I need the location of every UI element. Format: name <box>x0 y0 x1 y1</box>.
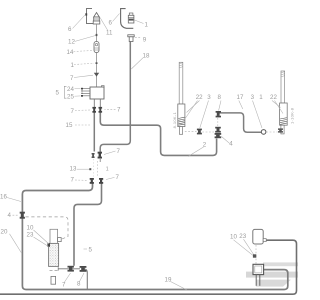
svg-text:7: 7 <box>71 176 75 183</box>
wire dashed link cyl-left to coupler 3 <box>185 130 197 132</box>
breather pipe <box>51 276 56 284</box>
svg-text:7: 7 <box>71 108 75 115</box>
svg-text:15: 15 <box>66 122 73 129</box>
svg-text:3: 3 <box>251 94 255 101</box>
svg-text:14: 14 <box>67 49 74 56</box>
svg-text:10: 10 <box>27 224 34 231</box>
cylinder left body <box>178 104 185 127</box>
coupler 3 left <box>197 129 202 135</box>
svg-text:1: 1 <box>71 62 75 69</box>
tick fitting on chain <box>96 62 98 64</box>
clip on chain <box>96 34 98 36</box>
coupler F5 <box>90 178 94 184</box>
svg-text:2: 2 <box>203 142 207 149</box>
svg-text:22: 22 <box>270 94 277 101</box>
coupler stack fitting 8 <box>216 111 221 117</box>
svg-text:5: 5 <box>89 246 93 253</box>
svg-text:8: 8 <box>218 94 222 101</box>
banjo fitting 9 <box>128 35 134 37</box>
coupler F8 <box>80 266 87 272</box>
leader 8 <box>219 101 221 111</box>
tank outlet line <box>57 267 59 270</box>
svg-text:17: 17 <box>237 94 244 101</box>
svg-text:9: 9 <box>143 37 147 44</box>
coupler F3 <box>92 153 95 158</box>
cylinder right rod <box>281 71 285 103</box>
svg-text:10: 10 <box>230 234 237 241</box>
leader 17 <box>239 101 243 110</box>
svg-text:18: 18 <box>143 53 150 60</box>
filter body <box>49 243 59 266</box>
svg-text:16: 16 <box>0 194 7 201</box>
nozzle 1 (left grease valve) <box>93 13 100 25</box>
wire dashed link ring to cyl-right <box>266 131 277 133</box>
wire chain below nozzle <box>96 24 98 87</box>
svg-text:6: 6 <box>109 19 113 26</box>
svg-text:23: 23 <box>27 232 34 239</box>
fitting small <box>253 254 256 257</box>
coupler stack low <box>215 133 222 138</box>
svg-text:12: 12 <box>68 39 75 46</box>
leader 22 left <box>184 101 198 121</box>
svg-text:5: 5 <box>56 90 60 97</box>
svg-text:11: 11 <box>106 30 113 37</box>
wire dashed suction line <box>26 217 69 239</box>
wire hose B: from fitting F6 down to tank fittings <box>74 184 102 266</box>
valve block legs <box>255 275 257 286</box>
wire dashed link coupler 3 to stack <box>202 131 214 133</box>
cylinder right body <box>280 103 288 125</box>
svg-text:7: 7 <box>117 148 121 155</box>
bracket 6 (right) <box>121 9 134 29</box>
coupler F2 <box>99 107 103 113</box>
coupler F4 <box>98 152 102 159</box>
svg-text:8: 8 <box>77 281 81 288</box>
svg-text:22: 22 <box>196 94 203 101</box>
wire dashed stack link <box>217 118 219 126</box>
coupler F7 <box>68 266 74 272</box>
wire line 18 from banjo 9 down to fitting F4 <box>100 42 130 153</box>
valve block <box>253 264 264 274</box>
wire hose D: pump F2 to right fitting stack <box>100 112 216 155</box>
bracket 6 (left) <box>87 9 96 24</box>
filter hidden bottom dashes <box>50 270 59 272</box>
capsule valve 14 <box>94 42 99 53</box>
leader 3 right <box>253 101 263 129</box>
svg-text:7: 7 <box>70 75 74 82</box>
leader 22 right <box>272 101 281 108</box>
ring fitting 3 right <box>261 130 266 135</box>
coupler 4 left <box>20 212 25 219</box>
svg-text:1: 1 <box>259 94 263 101</box>
wire hose C: canister line down right edge and along bottom <box>0 240 297 294</box>
stubs below pump <box>93 99 95 107</box>
svg-text:20: 20 <box>1 229 8 236</box>
fitting on right stem <box>278 128 283 132</box>
svg-text:7: 7 <box>62 281 66 288</box>
svg-text:7: 7 <box>117 107 121 114</box>
wire hose E: right coupler hose from fitting 8 to ring fitting <box>220 113 262 132</box>
svg-text:24: 24 <box>67 86 74 93</box>
svg-text:1: 1 <box>106 167 109 173</box>
wire stub F1 down <box>93 112 95 152</box>
wire hose A: left riser, bottom run, right U-turn to valve block <box>22 184 287 290</box>
coupler stack mid <box>215 127 221 133</box>
bracket for 24/25 <box>64 86 66 98</box>
nozzle 1 (right) <box>129 13 133 15</box>
filter side port <box>58 238 62 242</box>
svg-text:4: 4 <box>229 140 233 147</box>
svg-text:13: 13 <box>70 165 77 172</box>
canister 10/23 <box>253 229 263 244</box>
coupler F6 <box>99 178 103 184</box>
wire dashed link F4 to F6 <box>99 159 101 162</box>
wire dashed link canister to valve block <box>255 245 257 264</box>
svg-text:7: 7 <box>116 174 120 181</box>
cylinder left rod <box>179 62 183 104</box>
cylinder right stem <box>281 125 284 134</box>
svg-text:1: 1 <box>145 21 149 28</box>
coupler F1 <box>92 107 96 113</box>
svg-text:1-10K-8: 1-10K-8 <box>290 107 295 124</box>
pump box <box>102 86 105 87</box>
svg-text:6: 6 <box>68 26 72 33</box>
hose bundle into pump <box>82 89 90 96</box>
svg-text:19: 19 <box>165 276 172 283</box>
svg-text:23: 23 <box>239 233 246 240</box>
filter head <box>50 229 58 243</box>
leader 3 left <box>200 101 209 129</box>
svg-text:25: 25 <box>67 93 74 100</box>
arrow fitting 7 on chain <box>94 73 99 77</box>
svg-text:8-10K-1: 8-10K-1 <box>172 111 177 128</box>
svg-text:3: 3 <box>207 94 211 101</box>
watermark K logo <box>246 262 298 286</box>
svg-text:4: 4 <box>8 212 12 219</box>
wire tee from fitting 8 tank to bottom hose <box>84 269 87 290</box>
cylinder left stem <box>179 127 182 135</box>
